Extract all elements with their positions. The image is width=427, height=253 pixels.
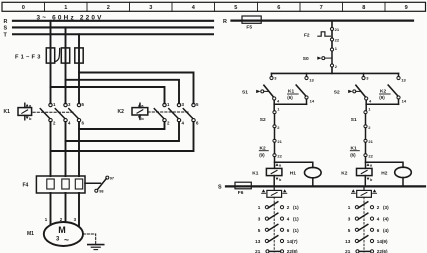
svg-text:6: 6 — [82, 121, 85, 126]
svg-text:21: 21 — [255, 249, 261, 253]
svg-text:21: 21 — [277, 139, 282, 144]
terminal 1 (S2 NC) — [273, 111, 276, 114]
svg-text:(6): (6) — [287, 95, 293, 100]
svg-text:(3): (3) — [383, 205, 389, 210]
start button S2 (NO) branch — [334, 73, 372, 104]
terminal 22 (F2) — [330, 38, 333, 41]
wire to K2 coil node — [365, 157, 367, 169]
overload trip contact F2 — [304, 31, 332, 39]
column scale ruler — [2, 2, 426, 11]
svg-text:(4): (4) — [383, 217, 389, 222]
svg-text:1: 1 — [258, 205, 261, 210]
svg-text:3: 3 — [258, 217, 261, 222]
terminal 22 (K1 NC) — [364, 154, 367, 157]
terminal 21 (F2) — [330, 27, 333, 30]
wire K2 coil to bus S — [364, 176, 366, 186]
terminal 21 (K1 NC) — [364, 139, 367, 142]
K1 contact table row 13-14 (7) — [255, 236, 298, 244]
svg-text:4: 4 — [192, 5, 196, 11]
contactor K2 coil — [118, 103, 148, 121]
svg-text:1: 1 — [64, 5, 67, 11]
wire motor frame to earth (dashed) — [83, 234, 96, 244]
svg-text:1: 1 — [167, 102, 170, 107]
svg-text:0: 0 — [22, 5, 25, 11]
svg-text:T: T — [4, 33, 8, 39]
wire K1 outputs to overload — [51, 122, 80, 176]
start button S1 (NO) branch — [242, 73, 280, 104]
svg-text:S2: S2 — [260, 117, 266, 123]
svg-text:21: 21 — [345, 249, 351, 253]
svg-text:F6: F6 — [238, 190, 244, 196]
svg-text:4: 4 — [287, 217, 290, 222]
svg-text:4: 4 — [277, 99, 280, 104]
wire overload to motor — [51, 193, 80, 227]
motor M1 — [27, 222, 83, 246]
svg-text:4: 4 — [377, 217, 380, 222]
distribution wire — [272, 72, 399, 74]
svg-text:K2: K2 — [341, 171, 347, 177]
K1 mirror dashed link — [273, 197, 275, 252]
terminal 21 (K2 NC) — [273, 139, 276, 142]
svg-text:R: R — [223, 19, 227, 25]
svg-text:97: 97 — [110, 176, 114, 180]
wire node to lamp H2 — [366, 162, 404, 167]
svg-text:14: 14 — [402, 99, 407, 104]
K1 contact table row 1-2 (1) — [258, 202, 299, 210]
svg-text:a: a — [370, 163, 373, 167]
K1 contact table row 3-4 (1) — [258, 213, 299, 221]
wire K1 coil to bus S — [273, 176, 275, 186]
svg-text:2: 2 — [377, 205, 380, 210]
terminal 1 (S1 NC) — [364, 111, 367, 114]
svg-text:2: 2 — [368, 125, 371, 130]
wire K2 output pole2 to phase S column — [66, 122, 180, 141]
wire merge S1/K1aux — [274, 103, 306, 105]
K1 aux NC contact 21-22 — [350, 142, 365, 157]
svg-text:S2: S2 — [334, 89, 340, 95]
svg-text:22(8): 22(8) — [287, 249, 298, 253]
svg-text:K1: K1 — [252, 171, 258, 177]
svg-text:1: 1 — [45, 217, 48, 222]
interlock button S1 (NC) — [351, 114, 366, 125]
svg-text:(4): (4) — [383, 228, 389, 233]
svg-text:4: 4 — [182, 121, 185, 126]
terminal 22 (K2 NC) — [273, 154, 276, 157]
svg-text:S: S — [218, 184, 222, 190]
svg-text:13: 13 — [401, 77, 406, 82]
fuse F5 (control) — [242, 16, 261, 30]
wire node to lamp H1 — [275, 162, 313, 167]
K2 linkage dashed — [148, 111, 188, 113]
svg-text:9: 9 — [405, 5, 408, 11]
wire to K1 coil node — [274, 157, 276, 169]
terminal 2 (S2 NC) — [273, 125, 276, 128]
svg-text:14(7): 14(7) — [287, 239, 298, 244]
K2 contact table row 1-2 (3) — [348, 202, 389, 210]
svg-text:3: 3 — [274, 76, 277, 81]
fuse trip linkage hook — [55, 49, 60, 62]
K2 contact table row 3-4 (4) — [348, 213, 389, 221]
svg-text:H1: H1 — [290, 171, 296, 177]
K1 contact table row 5-6 (1) — [258, 224, 299, 232]
svg-text:(9): (9) — [259, 152, 265, 157]
wire H2 to bus S — [402, 178, 404, 186]
svg-text:K1: K1 — [4, 109, 11, 115]
thermal overload relay F4 — [23, 176, 86, 193]
K2 contact table row 13-14 (9) — [345, 236, 388, 244]
svg-text:6: 6 — [277, 5, 280, 11]
svg-text:3: 3 — [68, 102, 71, 107]
svg-text:F1~F3: F1~F3 — [15, 54, 43, 60]
svg-text:6: 6 — [377, 228, 380, 233]
svg-text:F4: F4 — [23, 182, 29, 188]
wire phase S drop to K1 pole 2 — [65, 27, 67, 103]
svg-text:S0: S0 — [303, 56, 309, 62]
svg-text:b: b — [279, 178, 282, 182]
svg-text:13: 13 — [345, 239, 351, 244]
wire H1 to bus S — [312, 178, 314, 186]
svg-text:1: 1 — [348, 205, 351, 210]
terminal 2 / node 2 — [330, 64, 333, 67]
svg-text:1: 1 — [368, 106, 371, 111]
svg-text:22: 22 — [335, 38, 340, 43]
fuse F6 (control) — [235, 182, 251, 196]
wire node 2 to distribution — [331, 67, 333, 73]
svg-text:1: 1 — [277, 106, 280, 111]
svg-text:(9): (9) — [379, 95, 385, 100]
svg-text:2: 2 — [167, 121, 170, 126]
svg-text:6: 6 — [196, 121, 199, 126]
svg-text:22(6): 22(6) — [377, 249, 388, 253]
svg-text:14(9): 14(9) — [377, 239, 388, 244]
svg-text:2: 2 — [287, 205, 290, 210]
bus S (left power) — [4, 26, 214, 32]
svg-text:5: 5 — [348, 228, 351, 233]
K1 main contact pole 2 (3-4) — [55, 102, 71, 126]
svg-text:(6): (6) — [350, 152, 356, 157]
svg-text:M1: M1 — [27, 231, 34, 237]
svg-text:F5: F5 — [246, 24, 252, 30]
svg-text:2: 2 — [107, 5, 110, 11]
interlock button S2 (NC) — [260, 114, 275, 125]
wire merge S2/K2aux — [366, 103, 398, 105]
svg-text:1: 1 — [53, 102, 56, 107]
svg-text:(1): (1) — [293, 217, 299, 222]
contactor coil K2 (control) — [341, 163, 373, 182]
K1 main contact pole 1 (1-2) — [40, 102, 56, 126]
wire phase R drop to K1 pole 1 — [50, 21, 52, 104]
pilot lamp H1 — [290, 167, 321, 177]
svg-text:4: 4 — [369, 99, 372, 104]
F4 aux contact 97-98 — [85, 176, 114, 194]
svg-text:(1): (1) — [293, 205, 299, 210]
terminal 2 (S1 NC) — [364, 125, 367, 128]
K2 contact table row 5-6 (4) — [348, 224, 389, 232]
svg-text:13: 13 — [309, 77, 314, 82]
wire K2 input tap phase R — [51, 87, 165, 103]
svg-text:H2: H2 — [381, 171, 387, 177]
svg-text:(1): (1) — [293, 228, 299, 233]
K2 main contact pole 2 (3-4) — [169, 102, 185, 126]
K1 aux NO contact 13-14 — [287, 73, 315, 104]
svg-text:~: ~ — [64, 234, 69, 244]
svg-text:1: 1 — [335, 46, 338, 51]
svg-text:K2: K2 — [118, 109, 125, 115]
wire K2 output crossover pole1 to phase T column — [79, 122, 165, 129]
K1 main contact pole 3 (5-6) — [69, 102, 85, 126]
svg-text:22: 22 — [368, 154, 373, 159]
svg-text:4: 4 — [68, 121, 71, 126]
svg-text:21: 21 — [368, 139, 373, 144]
pilot lamp H2 — [381, 167, 411, 177]
svg-text:5: 5 — [196, 102, 199, 107]
svg-text:3: 3 — [366, 76, 369, 81]
wire K2 input tap phase T — [79, 73, 194, 104]
stop button S0 (NC) — [303, 51, 332, 64]
bus R (left power) — [4, 19, 214, 25]
svg-text:M: M — [58, 225, 66, 235]
svg-text:6: 6 — [287, 228, 290, 233]
svg-text:5: 5 — [258, 228, 261, 233]
svg-text:8: 8 — [362, 5, 365, 11]
K1 linkage dashed — [33, 111, 74, 113]
K1 contact mirror coil symbol — [262, 188, 287, 198]
K2 contact mirror coil symbol — [351, 188, 376, 198]
wire K2 input tap phase S — [66, 80, 180, 104]
fuse F2 (main) — [61, 48, 69, 63]
K2 mirror dashed link — [363, 197, 365, 252]
svg-text:b: b — [370, 178, 373, 182]
svg-text:S1: S1 — [351, 117, 357, 123]
svg-text:2: 2 — [53, 121, 56, 126]
svg-text:S: S — [4, 26, 8, 32]
svg-text:13: 13 — [255, 239, 261, 244]
svg-text:2: 2 — [277, 125, 280, 130]
wire left branch down — [273, 104, 275, 110]
bus T (left power) — [4, 33, 214, 39]
K2 aux NO contact 13-14 — [379, 73, 407, 104]
svg-text:5: 5 — [82, 102, 85, 107]
fuse F1 — [46, 48, 54, 63]
K2 contact table row 21-22 (6) — [345, 249, 388, 253]
svg-text:22: 22 — [277, 154, 282, 159]
K2 main contact pole 1 (1-2) — [154, 102, 170, 126]
svg-text:2: 2 — [335, 64, 338, 69]
contactor K1 coil — [4, 103, 33, 121]
svg-text:b: b — [141, 116, 144, 121]
svg-text:14: 14 — [310, 99, 315, 104]
svg-text:F2: F2 — [304, 33, 310, 39]
motor terminal labels 1 2 3 — [45, 217, 77, 222]
svg-text:7: 7 — [320, 5, 323, 11]
fuse F3 (main) — [75, 48, 83, 63]
svg-text:98: 98 — [99, 190, 103, 194]
wire phase T drop to K1 pole 3 — [78, 34, 80, 103]
wire right branch down — [365, 104, 367, 110]
svg-text:3: 3 — [149, 5, 152, 11]
svg-text:3: 3 — [182, 102, 185, 107]
svg-text:R: R — [4, 19, 8, 25]
wire K2 output crossover pole3 to phase R column — [51, 122, 194, 151]
K1 contact table row 21-22 (8) — [255, 249, 298, 253]
wire control drop from R — [331, 22, 333, 28]
K2 aux NC contact 21-22 — [259, 142, 274, 157]
svg-text:S1: S1 — [242, 89, 248, 95]
contactor coil K1 (control) — [252, 163, 282, 182]
svg-text:3: 3 — [348, 217, 351, 222]
wire F2 to S0 — [331, 41, 333, 48]
svg-text:5: 5 — [234, 5, 237, 11]
svg-text:21: 21 — [335, 27, 340, 32]
svg-text:3: 3 — [74, 217, 77, 222]
ground — [88, 245, 104, 250]
bus S (control return) — [218, 184, 425, 190]
bus R (control) — [223, 19, 413, 25]
terminal 1 (S0) — [330, 48, 333, 51]
wire S1NC to K1NC — [365, 128, 367, 139]
svg-text:a: a — [279, 163, 282, 167]
wire S2NC to K2NC — [274, 128, 276, 139]
K2 main contact pole 3 (5-6) — [183, 102, 199, 126]
svg-text:b: b — [29, 116, 32, 121]
